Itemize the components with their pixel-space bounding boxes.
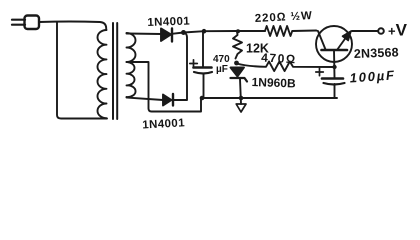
svg-text:+V: +V bbox=[388, 21, 408, 40]
svg-text:1N960B: 1N960B bbox=[251, 75, 296, 91]
svg-text:2N3568: 2N3568 bbox=[354, 45, 399, 61]
svg-text:100µF: 100µF bbox=[349, 67, 396, 85]
svg-text:µF: µF bbox=[216, 64, 228, 75]
svg-text:1N4001: 1N4001 bbox=[147, 16, 190, 29]
svg-text:470Ω: 470Ω bbox=[261, 51, 297, 67]
svg-text:220Ω ½W: 220Ω ½W bbox=[255, 10, 314, 25]
svg-text:1N4001: 1N4001 bbox=[142, 117, 185, 131]
